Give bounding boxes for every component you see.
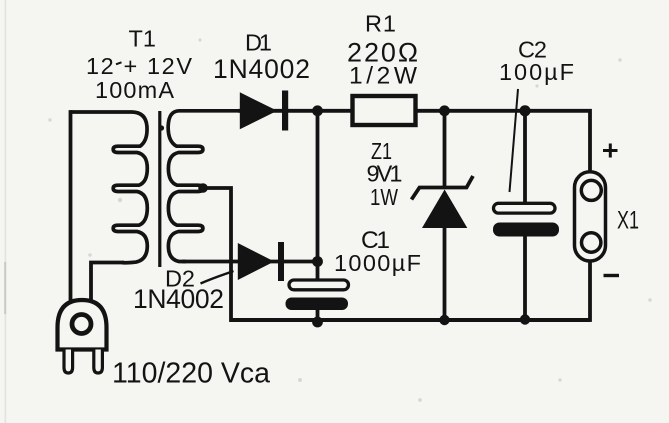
svg-text:9V1: 9V1 bbox=[367, 160, 403, 186]
svg-text:1N4002: 1N4002 bbox=[213, 54, 310, 84]
svg-text:D1: D1 bbox=[245, 29, 272, 55]
svg-text:X1: X1 bbox=[617, 206, 639, 234]
svg-text:110/220 Vca: 110/220 Vca bbox=[112, 357, 270, 389]
svg-text:100µF: 100µF bbox=[499, 59, 574, 85]
svg-text:100mA: 100mA bbox=[95, 77, 174, 103]
svg-text:1000µF: 1000µF bbox=[334, 250, 421, 276]
svg-text:1N4002: 1N4002 bbox=[133, 284, 224, 314]
svg-text:T1: T1 bbox=[129, 26, 157, 52]
svg-text:R1: R1 bbox=[365, 10, 396, 36]
svg-text:1W: 1W bbox=[370, 184, 399, 210]
svg-text:12 + 12V: 12 + 12V bbox=[86, 53, 192, 79]
svg-text:1/2W: 1/2W bbox=[349, 62, 418, 89]
